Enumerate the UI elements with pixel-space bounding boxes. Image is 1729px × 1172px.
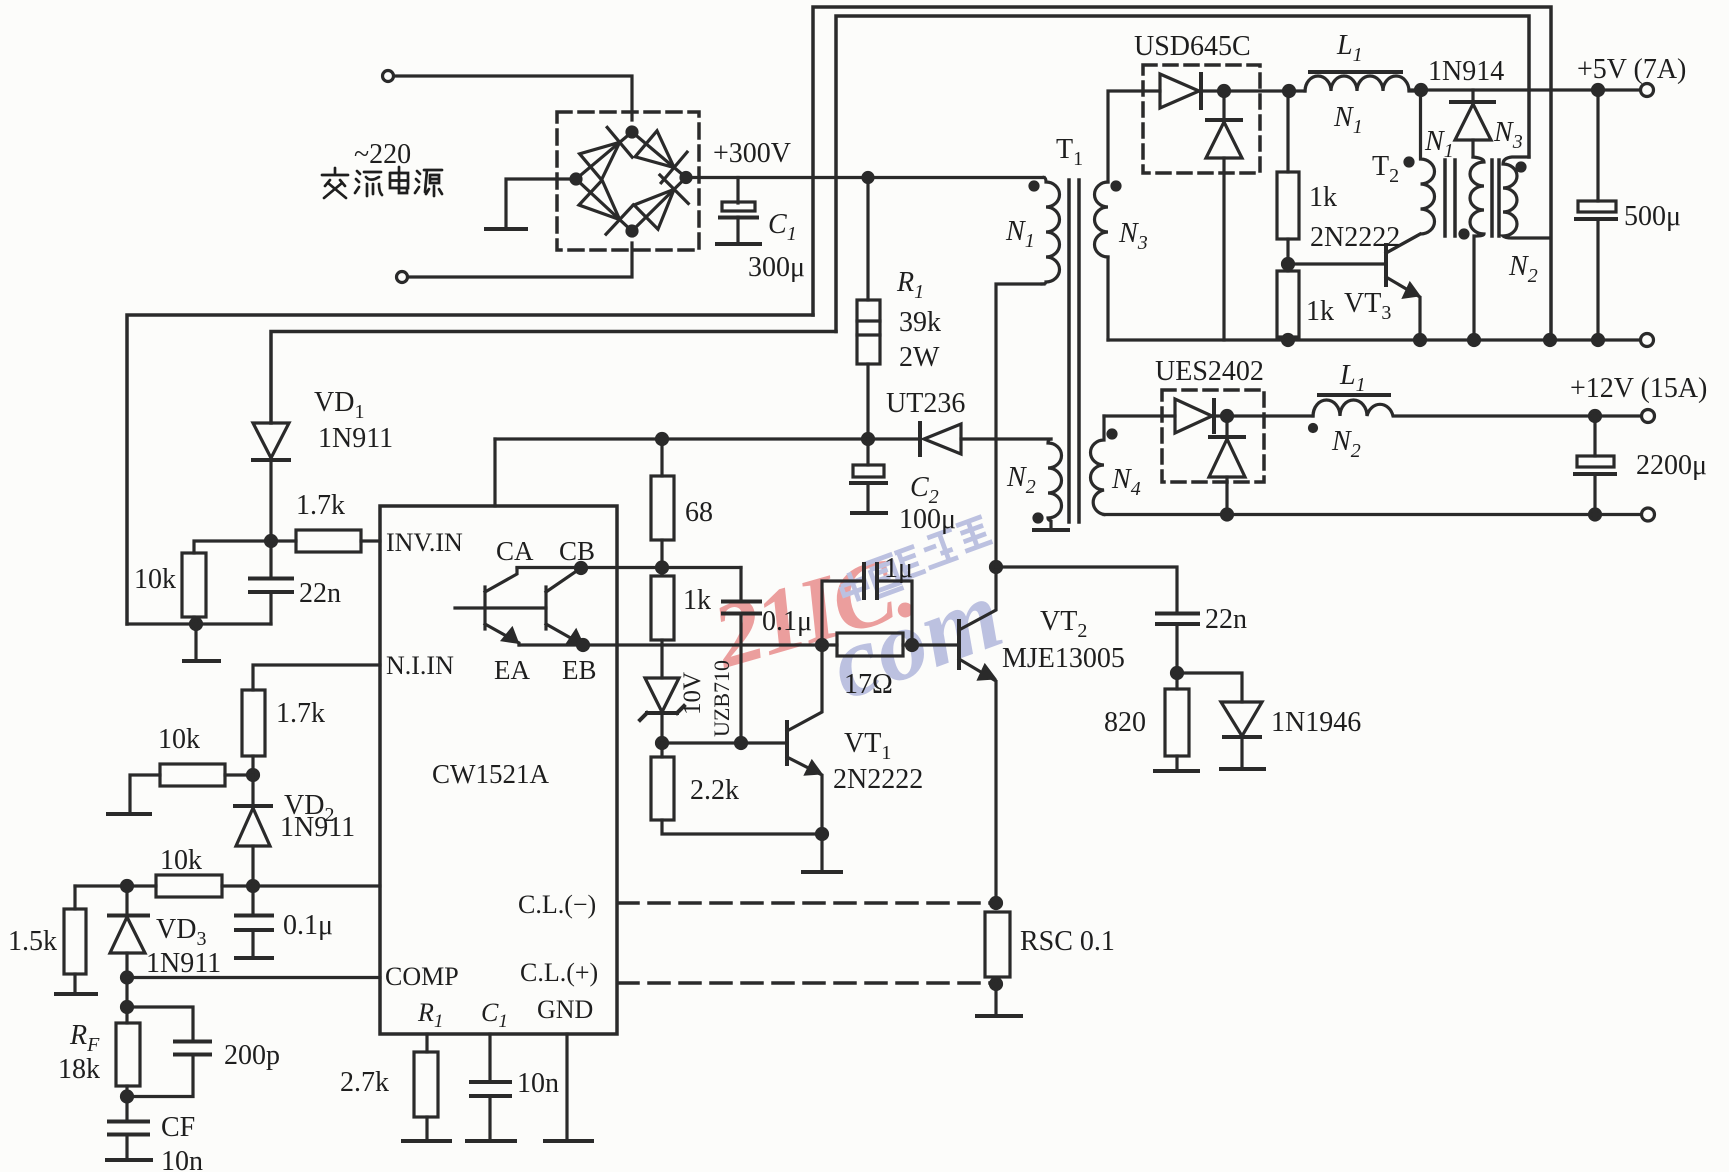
wire VT1 base [662,741,787,744]
node T2 middle bottom [1469,335,1480,346]
svg-text:+12V (15A): +12V (15A) [1570,373,1707,404]
bridge rectifier dashed box [557,112,699,250]
diode 1N1946 [1177,673,1242,702]
resistor 68 [660,439,663,476]
transformer T1 core [1067,180,1071,522]
svg-text:200p: 200p [224,1040,280,1071]
svg-text:UES2402: UES2402 [1155,356,1264,387]
T1 winding N2 [1048,439,1062,529]
node 68 top [657,434,668,445]
node 1k bottom [1283,335,1294,346]
T2 winding N1b (middle) [1470,157,1484,340]
inductor L1 (+12V) [1313,400,1595,416]
T2 core right [1490,160,1494,236]
resistor 1k (T2 upper) [1286,91,1289,172]
svg-text:10k: 10k [158,724,200,755]
T1 N3 phase dot [1112,182,1120,190]
wire +5V 0V rail [1108,338,1641,341]
node 2200u top [1590,411,1601,422]
svg-text:1N911: 1N911 [318,423,393,454]
wire +300V rail [686,176,1044,179]
node 10k bottom [191,619,202,630]
wire C1 lead [736,178,739,204]
wire R1 top lead [866,178,869,301]
T1 winding N3 [1095,182,1109,257]
T2 right phase dot [1517,163,1525,171]
dashed wire C.L.(-) [618,901,996,905]
wire [517,566,741,569]
wire [408,243,632,277]
wire IC top feed [493,439,496,506]
node VD3 top [122,881,133,892]
node L1 right / +5V rail [1416,85,1427,96]
inner feedback loop wire (top) [836,16,1529,332]
wire node to 10k [194,541,271,553]
outer feedback loop wire (top) [813,7,1551,340]
svg-text:10k: 10k [134,564,176,595]
capacitor 10n (C1 pin) [471,1080,510,1084]
wire COMP [127,976,380,979]
svg-text:1.5k: 1.5k [8,926,57,957]
L1 core bar [1310,70,1401,74]
resistor 820 [1165,689,1189,756]
capacitor 0.1u (VD2 node) [251,886,254,915]
inductor L1 (+5V) [1305,76,1421,91]
T2 N1 phase dot [1405,158,1413,166]
capacitor 22n (INV) [269,541,272,578]
node 1.7k/10k/VD2 [248,770,259,781]
T1 N4 phase dot [1108,430,1116,438]
diode 1N914 [1471,90,1474,102]
svg-text:2.7k: 2.7k [340,1067,389,1098]
wire +12V 0V rail [1104,513,1641,516]
svg-text:RSC 0.1: RSC 0.1 [1020,926,1115,957]
wire VD1 to node [269,460,272,541]
ground (1N1946) [1221,767,1264,771]
node zener bottom / 2.2k [657,738,668,749]
wire +5V rail [1409,88,1641,91]
svg-text:C.L.(+): C.L.(+) [520,958,598,987]
wire 10k bottom [192,617,195,624]
node 17R right [907,640,918,651]
resistor 10k (mid) [225,773,253,776]
wire [394,76,632,120]
node VT1 emitter [817,829,828,840]
node 500u top [1593,85,1604,96]
resistor 10k (INV divider) [182,553,206,617]
node left of bridge [571,174,581,184]
AC input terminal bottom [397,272,408,283]
ground stub under C1 [717,242,760,246]
AC input terminal top [383,71,394,82]
svg-text:1.7k: 1.7k [276,698,325,729]
node VT3 emitter [1415,335,1426,346]
svg-text:C.L.(−): C.L.(−) [518,890,596,919]
node UES2402 bottom [1222,509,1233,520]
ground (2.7k) [403,1139,450,1143]
capacitor C1 300u (electrolytic) [722,202,755,211]
svg-text:CW1521A: CW1521A [432,759,549,789]
+12V terminal [1642,410,1655,423]
svg-text:22n: 22n [1205,604,1247,635]
wire bottom node [127,622,271,625]
wire aux supply rail y=439 [495,437,868,440]
resistor 17R [822,643,837,646]
svg-text:22n: 22n [299,578,341,609]
ground (CF) [107,1158,151,1162]
node RF top [122,1002,133,1013]
T1 winding N4 [1091,416,1105,515]
bridge diode D1 (left-top edge) [580,127,633,179]
diode UES2402 lower [1225,416,1228,437]
wire CB collector rail [485,568,517,592]
svg-text:1N914: 1N914 [1428,56,1504,87]
svg-text:2200μ: 2200μ [1636,450,1707,481]
svg-text:68: 68 [685,497,713,528]
svg-text:CA: CA [496,536,534,566]
capacitor 500u [1596,90,1599,201]
node 22n bottom [1172,668,1183,679]
wire bridge left to ground [506,179,576,228]
CA emitter [485,624,519,645]
node bottom of bridge [627,226,637,236]
svg-text:UZB710: UZB710 [709,660,734,737]
svg-text:MJE13005: MJE13005 [1002,643,1125,674]
T2 middle phase dot [1460,230,1468,238]
ground (10n) [467,1139,515,1143]
label AC source (hand-drawn CJK) [322,167,442,198]
svg-text:10n: 10n [517,1068,559,1099]
T2 winding N3/N2 (right) [1503,157,1550,238]
capacitor 0.1u (CB branch) [739,568,742,602]
CB collector [546,568,581,592]
resistor 1k (under 68) [651,576,674,640]
0V terminal (+5V) [1641,334,1654,347]
resistor 2.2k [660,743,663,757]
ground (divider) [194,624,197,660]
svg-text:GND: GND [537,995,593,1024]
ground (bridge left) [486,227,526,231]
node VT2 emitter / RSC [991,898,1002,909]
node RF bottom [122,1091,133,1102]
ground (RSC) [994,984,997,1015]
capacitor 200p branch [127,1007,193,1041]
node 1k top [1284,86,1295,97]
T2 core left [1443,160,1447,236]
watermark 21IC.com [700,516,1015,721]
svg-text:100μ: 100μ [899,504,956,535]
wire GND pin [565,1034,568,1140]
node top of bridge [627,127,637,137]
svg-text:EB: EB [562,655,597,685]
resistor 10k (lower) [156,875,222,897]
CB emitter [546,624,583,645]
svg-text:1μ: 1μ [884,553,913,584]
ground (820) [1155,769,1198,773]
svg-text:2.2k: 2.2k [690,775,739,806]
node VD2 bottom [248,881,259,892]
svg-text:0.1μ: 0.1μ [283,910,333,941]
zener diode UZB710 10V [660,645,663,678]
dual diode UES2402 dashed box [1162,390,1264,482]
outer feedback loop wire (left) [127,315,813,624]
svg-text:1N911: 1N911 [280,812,355,843]
svg-text:1N911: 1N911 [146,948,221,979]
svg-text:10k: 10k [160,845,202,876]
node rail/T2 right bottom [1545,335,1556,346]
diode USD645C lower [1222,91,1225,120]
dashed wire C.L.(+) [618,981,996,985]
node 500u bottom [1593,335,1604,346]
capacitor C2 100u [866,439,869,465]
wire VT3 base [1288,262,1386,265]
wire N3 bottom lead [1106,257,1109,340]
node right of bridge (+300V) [681,173,691,183]
svg-text:~220: ~220 [354,139,411,170]
bridge diode D2 (top-right edge) [635,131,687,183]
wire C1 pin [488,1034,491,1081]
resistor 2.7k [414,1052,438,1117]
diode VD1 1N911 [253,423,289,458]
diode VD3 1N911 [125,886,128,915]
bridge diamond wires [576,132,686,231]
transistor VT1 2N2222 [785,722,789,764]
svg-text:1k: 1k [683,585,711,616]
node 17R left / VT1 collector [817,640,828,651]
wire to UT236 [868,437,920,440]
capacitor 22n (snubber) [996,567,1177,613]
svg-text:500μ: 500μ [1624,201,1681,232]
svg-text:EA: EA [494,655,530,685]
wire N.I.IN [253,665,380,690]
svg-text:1k: 1k [1309,182,1337,213]
svg-text:CF: CF [161,1112,195,1143]
ground (GND pin) [545,1139,592,1143]
diode UES2402 upper [1175,399,1212,433]
svg-text:COMP: COMP [385,962,459,991]
T1 N2 end stub [1034,528,1068,532]
wire UT236 to N2 [961,437,1051,440]
svg-text:39k: 39k [899,307,941,338]
0V terminal (+12V) [1642,508,1655,521]
transistor VT3 2N2222 [1384,245,1388,285]
node VD1/1.7k/10k/22n [266,536,277,547]
wire to RF [125,978,128,1024]
transformer T2 winding N1 [1386,90,1435,253]
wire [736,217,739,243]
inner feedback loop wire (left) [271,332,836,424]
ground (1.5k) [56,992,96,996]
svg-text:N.I.IN: N.I.IN [386,651,454,680]
transistor VT2 MJE13005 [957,621,961,668]
node USD645C junction [1219,86,1230,97]
resistor RSC 0.1 [985,912,1010,977]
L1 (+12V) phase dot [1310,425,1317,432]
T1 N2 phase dot [1034,514,1042,522]
svg-text:2W: 2W [899,342,940,373]
svg-text:+300V: +300V [713,138,791,169]
svg-text:+5V (7A): +5V (7A) [1577,54,1686,85]
svg-text:18k: 18k [58,1054,100,1085]
node CB collectors [576,563,587,574]
diode USD645C upper [1160,74,1199,108]
svg-text:CB: CB [559,536,595,566]
bridge diode D4 (bottom-right edge) [634,175,688,229]
+5V terminal [1641,84,1654,97]
wire USD645C lower to 0V rail [1222,158,1225,340]
node 2200u bottom [1590,509,1601,520]
node 0.1u bottom / VT1 base [736,738,747,749]
capacitor 1u bypass [822,581,864,645]
wire R1 bottom lead [866,364,869,439]
wire bottom-left node row [75,884,156,887]
transistor CB (base bar) [544,587,547,629]
wire R1 pin [425,1034,428,1052]
resistor 1.7k (horizontal, INV.IN) [271,539,296,542]
IC CW1521A box [380,506,617,1034]
node 68/1k/CB [657,562,668,573]
node R1 top [863,173,873,183]
resistor 1k (T2 lower) [1277,271,1299,337]
capacitor 2200u [1593,416,1596,456]
resistor 1.5k [73,886,76,909]
transistor CA (base bar) [483,587,486,629]
dual diode USD645C dashed box [1143,65,1260,173]
svg-text:1.7k: 1.7k [296,490,345,521]
node EB emitters [578,640,589,651]
wire N4 to UES2402 [1104,414,1175,417]
node COMP [122,972,133,983]
svg-text:INV.IN: INV.IN [386,528,463,557]
wire N3 top lead [1108,91,1160,182]
wire EA/EB emitter rail [519,643,822,646]
svg-text:10n: 10n [161,1146,203,1172]
svg-text:UT236: UT236 [886,388,965,419]
ground stub under C2 [852,511,886,515]
ground (10k mid) [108,812,150,816]
svg-text:1k: 1k [1306,296,1334,327]
node C2/UT236 [863,434,874,445]
svg-text:820: 820 [1104,707,1146,738]
diode UT236 [918,423,922,455]
svg-text:0.1μ: 0.1μ [762,606,812,637]
node VT2 collector [991,562,1002,573]
svg-text:2N2222: 2N2222 [1310,222,1400,253]
base wire CA/CB [455,606,546,609]
bridge diode D3 (left-bottom edge) [579,180,633,234]
svg-text:10V: 10V [679,672,706,715]
resistor 1.7k (vertical, N.I.IN) [242,690,265,756]
resistor RF 18k [116,1023,140,1086]
svg-text:17Ω: 17Ω [844,669,893,700]
diode VD2 1N911 [251,775,254,806]
T1 winding N1 [1042,178,1060,285]
svg-text:1N1946: 1N1946 [1271,707,1361,738]
L1 (+12V) core bar [1319,393,1389,397]
T1 N1 phase dot [1030,182,1038,190]
svg-text:300μ: 300μ [748,252,805,283]
capacitor CF 10n [109,1120,148,1124]
node RSC bottom [991,979,1002,990]
node UES2402 junction [1222,411,1233,422]
ground (VT1) [820,834,823,871]
node 1k junction [1283,259,1294,270]
svg-text:USD645C: USD645C [1134,31,1251,62]
svg-text:2N2222: 2N2222 [833,764,923,795]
wire VT2 collector up (T1 N1 bottom) [996,284,1044,567]
resistor R1 39k 2W [857,300,880,364]
